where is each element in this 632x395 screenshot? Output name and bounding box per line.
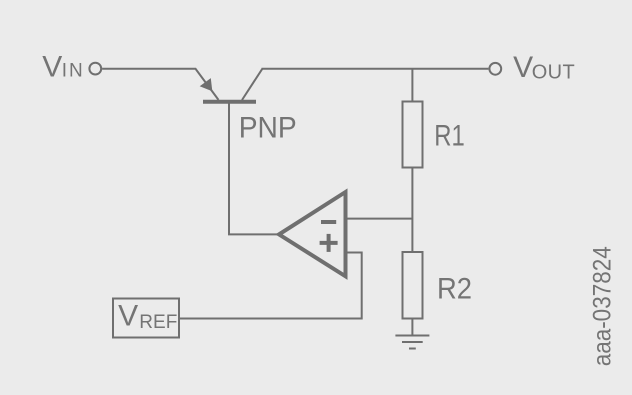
svg-text:R1: R1 — [434, 119, 465, 152]
svg-text:REF: REF — [139, 312, 177, 333]
svg-text:OUT: OUT — [532, 62, 575, 84]
svg-text:R2: R2 — [437, 273, 472, 306]
svg-text:PNP: PNP — [239, 111, 297, 144]
svg-text:V: V — [513, 51, 533, 84]
svg-text:V: V — [42, 50, 62, 83]
svg-text:aaa-037824: aaa-037824 — [588, 246, 616, 366]
svg-text:IN: IN — [62, 61, 83, 82]
svg-text:V: V — [118, 300, 138, 333]
